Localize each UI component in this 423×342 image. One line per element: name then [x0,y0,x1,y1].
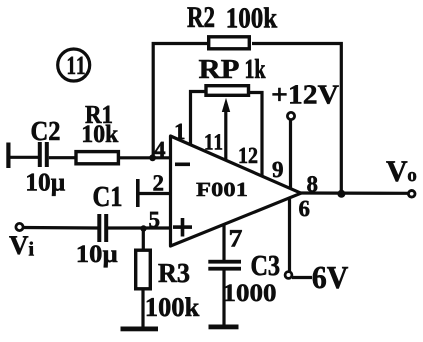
input open terminal bar [6,143,10,169]
Vo terminal circle [408,191,415,198]
wire C2 to R1 [49,156,77,159]
figure number 11 circle [58,49,90,81]
pin label 9 [273,162,283,177]
wire R2 right to output node [252,44,341,193]
label 1000 (C3 value) [225,284,276,301]
RP wiper arrow to pin 11 [222,98,230,161]
node A junction at pin 4 [149,154,156,161]
wire RP left terminal to pin 1 [191,92,207,146]
wire C3 to ground [222,270,225,326]
wire +12V to pin 9 [289,120,292,189]
minus sign inverting input [175,163,190,167]
ground (R3) [121,327,159,332]
wire feedback up from node A [153,44,207,156]
node B junction at pin 5 [140,225,146,231]
label 100k (R2 value) [228,7,278,27]
wire input bar to C2 [10,156,39,159]
capacitor C2 [38,142,49,167]
+12V terminal circle [287,112,294,119]
label Vo [386,161,407,181]
-6V terminal circle [285,272,292,279]
wire R1 to op-amp pin 4 [119,156,171,159]
pin label 6 [299,201,309,216]
wire C1 to op-amp pin 5 [108,226,171,229]
resistor R3 [136,250,151,289]
wire Vi to C1 [23,226,98,230]
capacitor C3 [208,260,241,271]
plus sign non-inverting input [173,218,192,237]
op-amp U1 triangle [171,136,302,246]
label Vi [9,236,28,254]
label RP [199,60,239,78]
label 10k (R1 value) [83,125,118,143]
pin label 1 [176,124,185,139]
pin label 2 [154,175,164,190]
label R3 [158,264,189,283]
pin label 11 [206,134,223,149]
wire node B down to R3 [142,229,145,251]
input terminal Vi circle [16,223,23,230]
resistor R1 [76,152,118,164]
ground (C3) [209,325,239,330]
label F001 [196,183,246,197]
wire RP right terminal to pin 12 [249,93,263,177]
pin 2 stub with end bar [136,179,171,207]
wire output to Vo [300,191,409,195]
wire pin 7 down to C3 [222,224,225,261]
label 10u (C2 value) [27,174,65,196]
potentiometer RP [206,86,249,96]
label +12V [273,85,339,104]
label 100k (R3 value) [147,297,199,316]
wire dash from -6V circle [292,276,312,279]
pin label 7 [230,230,242,246]
label C1 [94,187,122,207]
label C2 [32,122,60,141]
capacitor C1 [97,214,108,242]
pin label 12 [240,148,258,163]
resistor R2 [209,37,250,49]
wire R3 to ground [141,290,144,327]
label R1 [85,106,111,123]
wire pin 6 down to -6V terminal [288,198,291,272]
pin label 4 [154,142,165,157]
label 6V [313,267,348,289]
label C3 [252,256,280,275]
pin label 5 [149,212,159,227]
pin label 8 [307,176,317,192]
node C output junction [337,190,345,198]
label 1k (RP value) [246,59,265,78]
label R2 [187,7,214,27]
label 10u (C1 value) [78,245,117,267]
